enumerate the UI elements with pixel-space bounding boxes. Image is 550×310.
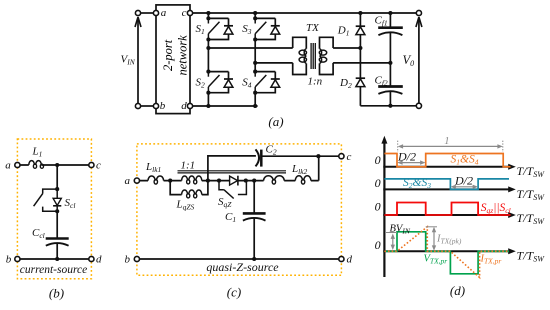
transformer TX primary bracket top xyxy=(293,37,307,49)
switch Scl bottom node xyxy=(55,209,59,213)
output terminal + xyxy=(416,10,421,15)
junction top rail D1 xyxy=(358,11,362,15)
coupled inductor bottom winding LqZS xyxy=(170,181,208,195)
switch Scl top bar xyxy=(43,189,58,194)
switch S1 antiparallel diode xyxy=(224,25,233,27)
switch S3 top bar wire xyxy=(255,17,275,19)
capacitor C1 wire bottom xyxy=(253,218,255,259)
transformer TX primary winding link xyxy=(304,49,306,64)
(c) bottom wire xyxy=(140,258,339,260)
switch Scl series diode xyxy=(56,189,58,198)
quasi-Z-source dashed border xyxy=(137,144,342,275)
switch S1 bottom stub xyxy=(207,34,209,40)
inductor Llk2 winding B xyxy=(295,176,311,181)
diode D2 xyxy=(356,77,365,79)
svg-text:b: b xyxy=(125,254,131,266)
wire S3 bottom to tap xyxy=(254,40,256,72)
bottom rail wire (bridge side) xyxy=(193,105,258,107)
junction bottom rail Cf2 xyxy=(388,104,392,108)
node: left leg transformer tap xyxy=(206,46,210,50)
current-source cell dashed border xyxy=(17,139,91,279)
S3 leg wire from top rail xyxy=(254,13,256,18)
svg-text:D/2: D/2 xyxy=(397,149,416,163)
S1 leg wire from top rail xyxy=(207,13,209,18)
diode D1 xyxy=(356,25,365,27)
switch S2 blade xyxy=(208,75,219,87)
wire secondary top to D1 anode node xyxy=(333,47,360,49)
wire C2 to node c xyxy=(261,155,339,157)
svg-text:c: c xyxy=(347,151,352,163)
wire VIN- to node b xyxy=(141,105,154,107)
switch S1 bottom node xyxy=(206,37,210,41)
switch S2 antiparallel diode xyxy=(224,78,233,80)
(c) main wire Sqz segment xyxy=(208,180,230,182)
switch S1 blade xyxy=(208,22,219,34)
svg-text:current-source: current-source xyxy=(20,264,88,276)
wire VIN+ to node a xyxy=(141,12,154,14)
svg-text:a: a xyxy=(161,7,167,19)
diode of Sqz xyxy=(230,176,238,185)
capacitor Ccl xyxy=(46,237,69,240)
switch S4 top bar wire xyxy=(255,71,275,73)
waveform time axis xyxy=(383,214,510,216)
waveform Sqz||Scl (red) xyxy=(384,203,510,216)
svg-text:1: 1 xyxy=(444,136,449,147)
svg-text:c: c xyxy=(182,7,187,19)
capacitor C1 wire top xyxy=(253,181,255,213)
svg-text:d: d xyxy=(96,254,102,266)
switch S4 top node xyxy=(253,70,257,74)
svg-text:0: 0 xyxy=(375,200,381,214)
(b) top wire xyxy=(20,164,89,166)
transformer TX primary winding loop 2 xyxy=(299,57,306,62)
(b) bottom junction xyxy=(55,257,59,261)
voltage source VIN positive terminal xyxy=(135,10,140,15)
switch S3 top node xyxy=(253,16,257,20)
capacitor C1 xyxy=(243,212,266,215)
transformer TX secondary bracket bottom xyxy=(320,63,334,75)
switch S2 bottom node xyxy=(206,91,210,95)
node secondary top / D1-D2 midpoint xyxy=(358,46,362,50)
svg-text:(a): (a) xyxy=(268,114,283,129)
svg-text:TX: TX xyxy=(306,22,320,34)
(c) main wire after Sqz xyxy=(238,180,319,182)
waveform VTX,pr (green) xyxy=(384,232,509,274)
switch S3 bottom stub xyxy=(254,34,256,40)
ITX(pk) measure arrow xyxy=(433,229,435,248)
(b) bottom wire xyxy=(20,258,89,260)
switch S1 top bar wire xyxy=(208,17,228,19)
switch S2 bottom stub xyxy=(207,87,209,93)
(c) node after Llk1 xyxy=(168,179,172,183)
top rail wire xyxy=(193,12,417,14)
svg-text:a: a xyxy=(5,159,11,171)
capacitor C2 flat plate xyxy=(260,150,263,167)
switch S2 top bar wire xyxy=(208,71,228,73)
switch Scl blade xyxy=(34,194,43,207)
voltage source VIN negative terminal xyxy=(135,103,140,108)
transformer TX secondary winding loop 2 xyxy=(319,57,326,62)
svg-text:2-portnetwork: 2-portnetwork xyxy=(161,35,189,76)
wire secondary bottom to Cf midpoint xyxy=(333,62,390,64)
inductor L1 xyxy=(29,161,41,165)
switch Scl branch wire xyxy=(56,165,58,189)
capacitor C2 curved plate xyxy=(256,149,260,166)
capacitor Ccl wire bottom xyxy=(56,243,58,259)
svg-text:1:n: 1:n xyxy=(308,76,323,88)
VIN arrow xyxy=(137,19,139,103)
S4 leg wire to bottom rail xyxy=(254,93,256,106)
svg-text:D/2: D/2 xyxy=(454,173,473,187)
capacitor Cf1 wire bottom xyxy=(389,32,391,63)
switch S4 blade xyxy=(255,75,266,87)
switch Scl top node xyxy=(55,187,59,191)
waveform time axis xyxy=(383,188,510,190)
(c) terminal b xyxy=(134,256,139,261)
switch S4 fixed contact stub xyxy=(254,72,256,77)
switch S3 blade xyxy=(255,22,266,34)
Vo arrow xyxy=(418,19,420,103)
svg-text:1:1: 1:1 xyxy=(181,160,196,172)
node d terminal xyxy=(187,103,192,108)
capacitor Ccl wire top xyxy=(56,211,58,238)
svg-text:(c): (c) xyxy=(227,285,241,300)
svg-text:0: 0 xyxy=(375,153,381,167)
(c) bottom junction C1 xyxy=(252,257,256,261)
capacitor Cf2 xyxy=(378,85,403,88)
svg-text:c: c xyxy=(96,160,101,172)
junction top rail Cf1 xyxy=(388,11,392,15)
wire right tap to transformer primary bottom xyxy=(255,62,293,64)
switch S4 bottom stub xyxy=(254,87,256,93)
(b) terminal d xyxy=(89,256,94,261)
svg-text:0: 0 xyxy=(375,176,381,190)
svg-text:b: b xyxy=(160,100,166,112)
wire S1 bottom to tap xyxy=(207,40,209,72)
transformer TX primary bracket bottom xyxy=(293,63,307,75)
capacitor Cf2 wire top xyxy=(389,63,391,86)
capacitor Cf1 wire top xyxy=(389,13,391,27)
svg-text:S2&S3: S2&S3 xyxy=(403,177,431,190)
switch S3 fixed contact stub xyxy=(254,18,256,23)
transformer TX core xyxy=(311,43,315,69)
S2 leg wire to bottom rail xyxy=(207,93,209,106)
switch S3 bottom node xyxy=(253,37,257,41)
transformer TX secondary bracket top xyxy=(320,37,334,49)
switch S2 fixed contact stub xyxy=(207,72,209,77)
BVIN measure arrow xyxy=(392,236,394,248)
rectifier branch vertical wire xyxy=(359,13,361,106)
switch S4 antiparallel diode xyxy=(271,78,280,80)
switch S2 antiparallel diode branch wire xyxy=(208,72,228,93)
switch S3 antiparallel diode xyxy=(271,25,280,27)
(b) terminal a xyxy=(15,162,20,167)
switch S1 top node xyxy=(206,16,210,20)
node: right leg transformer tap xyxy=(253,61,257,65)
junction top rail S1 leg xyxy=(206,11,210,15)
transformer TX secondary winding link xyxy=(320,49,322,64)
waveform time axis xyxy=(383,250,510,252)
2-port network box U1 xyxy=(156,5,190,114)
(c) input wire xyxy=(140,180,171,182)
switch Sqz left node xyxy=(217,179,221,183)
waveform S1&S4 (orange) xyxy=(384,154,510,167)
riser wire to C2 xyxy=(208,156,256,181)
waveform S2&S3 (teal) xyxy=(384,179,509,190)
(b) terminal c xyxy=(89,162,94,167)
capacitor Cf1 xyxy=(378,26,403,29)
(b) terminal b xyxy=(15,256,20,261)
inductor Llk1 xyxy=(148,176,164,181)
junction bottom rail S4 leg xyxy=(253,104,257,108)
svg-text:(b): (b) xyxy=(49,285,64,300)
svg-text:quasi-Z-source: quasi-Z-source xyxy=(206,260,279,274)
switch Sqz blade branch xyxy=(219,181,224,190)
waveform time axis xyxy=(383,166,510,168)
(c) terminal c xyxy=(339,154,344,159)
svg-text:0: 0 xyxy=(375,238,381,252)
svg-text:a: a xyxy=(125,175,131,187)
output bottom rail xyxy=(360,105,416,107)
coupled inductor top winding xyxy=(170,180,208,182)
node b terminal xyxy=(153,103,158,108)
junction top rail S3 leg xyxy=(253,11,257,15)
waveform ITX,pr (orange dotted) xyxy=(384,227,509,278)
svg-text:d: d xyxy=(347,254,353,266)
(b) node top junction xyxy=(55,163,59,167)
output terminal - xyxy=(416,103,421,108)
node Llk2 riser top xyxy=(316,154,320,158)
junction bottom rail S2 leg xyxy=(206,104,210,108)
node c terminal xyxy=(187,10,192,15)
svg-text:(d): (d) xyxy=(450,283,465,298)
node a terminal xyxy=(153,10,158,15)
transformer TX primary winding loop 1 xyxy=(299,50,306,55)
switch S1 fixed contact stub xyxy=(207,18,209,23)
switch S4 antiparallel diode branch wire xyxy=(255,72,275,93)
transformer TX secondary winding loop 1 xyxy=(319,50,326,55)
capacitor Cf2 wire bottom xyxy=(389,91,391,106)
node Cf midpoint xyxy=(388,61,392,65)
node Sqz right xyxy=(244,179,248,183)
switch S3 antiparallel diode branch wire xyxy=(255,18,275,39)
coupled inductor core bars xyxy=(178,171,287,173)
node C1 branch xyxy=(252,179,256,183)
svg-text:b: b xyxy=(6,253,12,265)
svg-text:S1&S4: S1&S4 xyxy=(451,154,479,167)
(c) terminal d xyxy=(339,256,344,261)
switch Scl bottom contact xyxy=(43,207,58,212)
wire left tap to transformer primary top xyxy=(208,47,292,49)
switch S2 top node xyxy=(206,70,210,74)
switch S1 antiparallel diode branch wire xyxy=(208,18,228,39)
waveform vertical axis xyxy=(383,141,385,277)
(c) node after coupled inductor xyxy=(206,179,210,183)
riser wire Llk2 to top xyxy=(318,156,320,180)
(c) terminal a xyxy=(134,178,139,183)
svg-text:d: d xyxy=(181,100,187,112)
switch S4 bottom node xyxy=(253,91,257,95)
inductor Llk2 winding A xyxy=(264,176,285,181)
